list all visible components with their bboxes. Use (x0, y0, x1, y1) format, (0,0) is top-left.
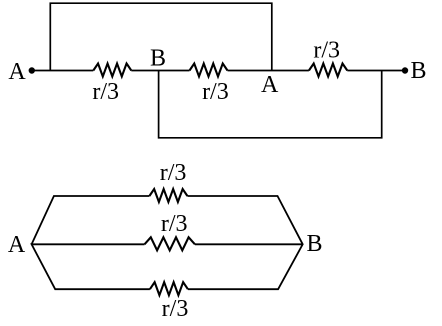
svg-text:r/3: r/3 (161, 211, 188, 237)
svg-text:r/3: r/3 (162, 296, 189, 322)
svg-text:B: B (306, 231, 322, 257)
svg-text:A: A (261, 72, 279, 98)
svg-text:r/3: r/3 (92, 79, 119, 105)
svg-text:r/3: r/3 (313, 38, 340, 64)
svg-text:B: B (410, 58, 426, 84)
svg-text:B: B (150, 46, 166, 72)
svg-text:r/3: r/3 (160, 160, 187, 186)
svg-text:A: A (8, 59, 26, 85)
svg-text:A: A (8, 232, 26, 258)
svg-text:r/3: r/3 (202, 79, 229, 105)
